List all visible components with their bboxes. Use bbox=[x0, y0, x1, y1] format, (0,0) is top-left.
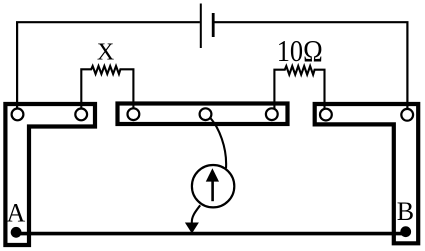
jockey (sliding contact, arrow on wire) bbox=[185, 223, 199, 234]
copper strip middle bbox=[118, 104, 288, 125]
terminal: left strip terminal 2 bbox=[75, 109, 87, 121]
wire: left branch from battery to left strip terminal bbox=[17, 22, 200, 110]
svg-text:10Ω: 10Ω bbox=[277, 33, 323, 68]
terminal: middle strip terminal 2 (galvanometer tap) bbox=[200, 108, 212, 120]
wire: right branch from battery to right strip terminal bbox=[215, 22, 408, 110]
svg-text:X: X bbox=[97, 39, 114, 65]
terminal: right strip terminal 2 bbox=[401, 109, 413, 121]
node B (dot) bbox=[400, 226, 411, 237]
terminal: middle strip terminal 1 bbox=[127, 108, 139, 120]
wire: galvanometer tap from middle strip terminal bbox=[210, 117, 227, 168]
copper strip right (L-shaped) bbox=[315, 104, 419, 243]
terminal: middle strip terminal 3 bbox=[266, 108, 278, 120]
resistor X (zigzag with leads) bbox=[81, 66, 133, 110]
svg-text:A: A bbox=[7, 199, 26, 228]
galvanometer G (circle) bbox=[192, 165, 234, 207]
terminal: left strip terminal 1 bbox=[12, 109, 24, 121]
node A (dot) bbox=[11, 227, 22, 238]
resistor 10 ohm (zigzag with leads) bbox=[274, 66, 324, 110]
battery B1 bbox=[201, 4, 213, 49]
copper strip left (L-shaped) bbox=[5, 104, 95, 245]
wire: galvanometer to jockey bbox=[192, 205, 200, 223]
svg-text:B: B bbox=[397, 197, 414, 226]
bridge wire A-B bbox=[16, 232, 406, 236]
galvanometer needle (arrow up) bbox=[206, 168, 219, 201]
terminal: right strip terminal 1 bbox=[320, 109, 332, 121]
